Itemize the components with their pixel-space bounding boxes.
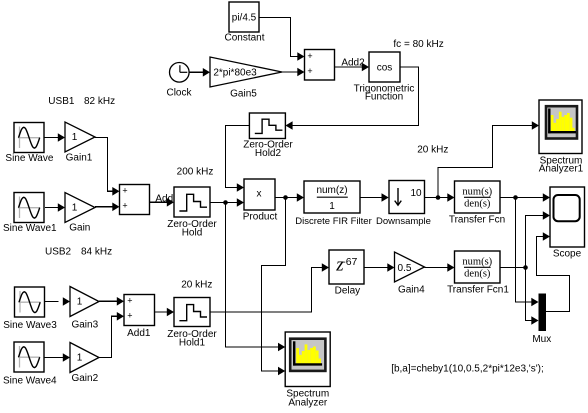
svg-text:x: x (257, 188, 262, 199)
svg-text:Downsample: Downsample (376, 216, 431, 227)
svg-text:84 kHz: 84 kHz (81, 247, 112, 258)
svg-text:Add2: Add2 (341, 58, 365, 69)
svg-text:+: + (127, 311, 132, 321)
svg-text:num(z): num(z) (316, 185, 347, 196)
svg-text:Constant: Constant (224, 33, 264, 44)
svg-text:-67: -67 (342, 256, 357, 268)
svg-text:82 kHz: 82 kHz (84, 96, 115, 107)
svg-text:Sine Wave: Sine Wave (5, 153, 53, 164)
svg-text:USB1: USB1 (48, 96, 75, 107)
svg-text:Add1: Add1 (127, 328, 151, 339)
svg-text:USB2: USB2 (45, 247, 72, 258)
svg-text:fc = 80 kHz: fc = 80 kHz (393, 39, 443, 50)
svg-text:Hold1: Hold1 (179, 337, 206, 348)
svg-text:Scope: Scope (553, 248, 582, 259)
svg-text:+: + (122, 186, 127, 196)
svg-text:+: + (307, 66, 312, 76)
svg-text:+: + (127, 296, 132, 306)
svg-text:+: + (122, 201, 127, 211)
svg-text:1: 1 (77, 353, 83, 364)
svg-text:Mux: Mux (532, 334, 551, 345)
svg-text:Gain5: Gain5 (230, 89, 257, 100)
svg-text:20 kHz: 20 kHz (417, 144, 448, 155)
svg-text:den(s): den(s) (464, 268, 491, 279)
svg-text:Transfer Fcn1: Transfer Fcn1 (447, 284, 509, 295)
svg-text:1: 1 (329, 201, 335, 212)
svg-text:1: 1 (77, 297, 83, 308)
svg-text:1: 1 (72, 203, 78, 214)
svg-text:Delay: Delay (335, 285, 361, 296)
svg-text:[b,a]=cheby1(10,0.5,2*pi*12e3,: [b,a]=cheby1(10,0.5,2*pi*12e3,'s'); (391, 363, 544, 374)
svg-text:Gain: Gain (69, 223, 90, 234)
svg-text:den(s): den(s) (464, 198, 491, 209)
svg-text:200 kHz: 200 kHz (177, 167, 214, 178)
svg-text:10: 10 (410, 188, 422, 199)
svg-text:Gain4: Gain4 (398, 284, 425, 295)
svg-text:0.5: 0.5 (398, 263, 412, 274)
svg-text:Sine Wave3: Sine Wave3 (3, 320, 57, 331)
svg-text:Add: Add (155, 193, 173, 204)
svg-text:pi/4.5: pi/4.5 (232, 13, 257, 24)
svg-text:Analyzer1: Analyzer1 (539, 164, 584, 175)
svg-text:Hold2: Hold2 (255, 148, 282, 159)
svg-text:cos: cos (377, 63, 393, 74)
svg-text:Discrete FIR Filter: Discrete FIR Filter (295, 216, 372, 227)
svg-text:num(s): num(s) (462, 187, 492, 198)
svg-text:2*pi*80e3: 2*pi*80e3 (213, 68, 257, 79)
svg-text:Analyzer: Analyzer (288, 397, 328, 408)
svg-text:Product: Product (243, 212, 278, 223)
svg-text:+: + (307, 51, 312, 61)
svg-text:1: 1 (72, 132, 78, 143)
svg-text:Sine Wave4: Sine Wave4 (3, 376, 57, 387)
svg-text:Hold: Hold (182, 227, 203, 238)
svg-text:20 kHz: 20 kHz (181, 279, 212, 290)
svg-text:num(s): num(s) (462, 257, 492, 268)
svg-text:Gain1: Gain1 (66, 153, 93, 164)
svg-text:Clock: Clock (166, 88, 192, 99)
svg-text:Sine Wave1: Sine Wave1 (3, 223, 57, 234)
svg-text:Gain3: Gain3 (71, 320, 98, 331)
svg-text:Function: Function (365, 92, 403, 103)
svg-text:Gain2: Gain2 (71, 373, 98, 384)
svg-text:Transfer Fcn: Transfer Fcn (449, 214, 505, 225)
